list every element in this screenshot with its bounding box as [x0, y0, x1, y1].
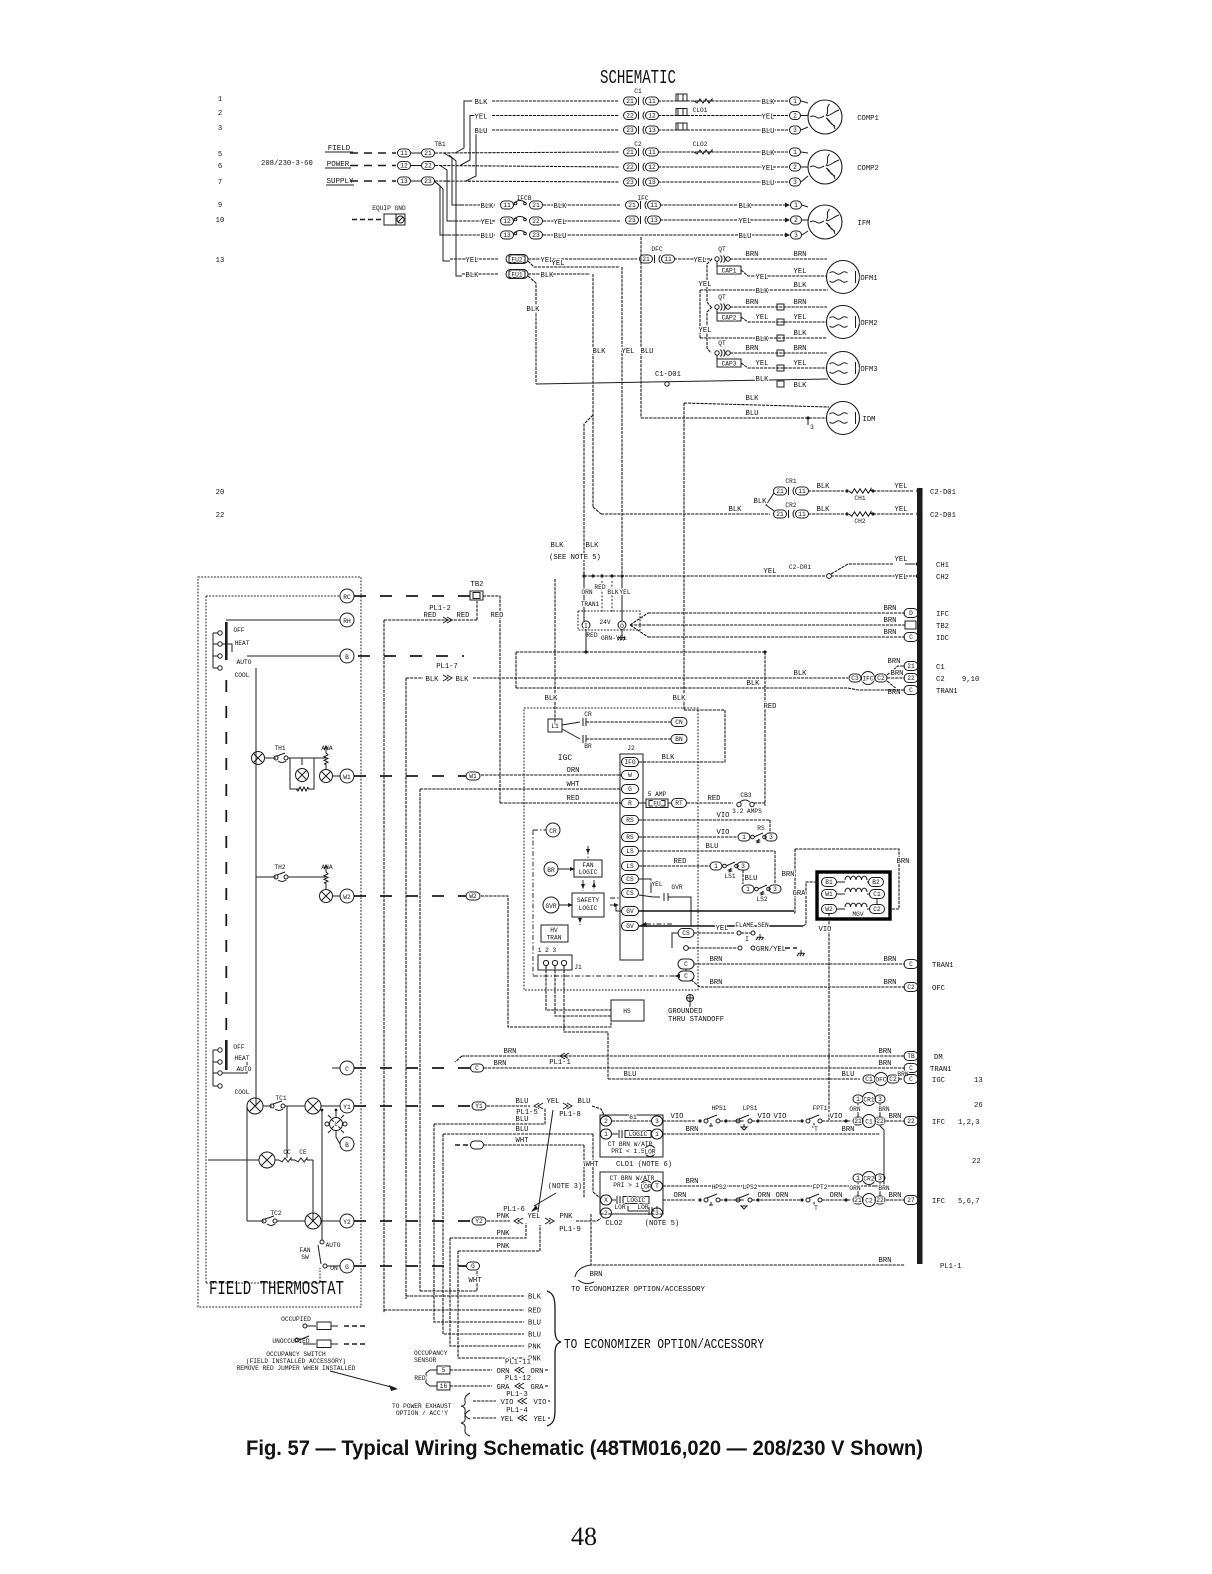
arrow hv: [579, 917, 581, 925]
svg-text:HPS2: HPS2: [712, 1184, 727, 1191]
svg-text:BLK: BLK: [466, 272, 480, 280]
wire IDM BLK: [684, 403, 829, 407]
thermostat inner rail: [205, 596, 207, 1283]
wire CAP2 YEL: [741, 317, 827, 322]
svg-text:SW: SW: [301, 1254, 309, 1261]
svg-text:WHT: WHT: [469, 1277, 483, 1285]
svg-text:BRN: BRN: [590, 1271, 603, 1279]
svg-text:C2-D01: C2-D01: [930, 512, 956, 520]
svg-text:FLAME SEN: FLAME SEN: [735, 922, 769, 929]
svg-text:2: 2: [793, 113, 797, 120]
connector W1: [354, 775, 466, 777]
CLO2 pin X: [601, 1195, 612, 1205]
svg-text:OFC: OFC: [875, 1077, 886, 1084]
grounded standoff: [687, 995, 694, 1002]
J2 pin RS: [622, 816, 639, 825]
wire BLU riser to CLO2: [592, 1134, 594, 1192]
wire row7 to motor: [658, 181, 788, 183]
svg-text:THRU STANDOFF: THRU STANDOFF: [668, 1016, 724, 1024]
wire to Y2: [321, 1220, 340, 1222]
svg-text:RED: RED: [586, 632, 597, 639]
CLO1 pin 2: [601, 1116, 612, 1126]
svg-text:LOR: LOR: [644, 1149, 655, 1156]
svg-text:13: 13: [216, 257, 225, 265]
CLO2 heater: [694, 150, 712, 154]
svg-text:C1: C1: [634, 88, 642, 95]
svg-text:11: 11: [648, 98, 656, 105]
wire CE riser: [312, 1160, 314, 1221]
wire YEL branch: [528, 261, 620, 267]
svg-text:9: 9: [218, 202, 222, 210]
heat lamp 1: [252, 752, 265, 765]
svg-text:C1-D01: C1-D01: [655, 371, 681, 379]
svg-text:PNK: PNK: [497, 1243, 511, 1251]
wire CR1 BLK: [808, 490, 845, 492]
svg-text:21: 21: [424, 150, 432, 157]
svg-text:3: 3: [878, 1175, 882, 1182]
svg-text:BRN: BRN: [891, 670, 904, 678]
svg-text:W2: W2: [343, 894, 351, 901]
indoor fan motor IFM: [808, 205, 842, 239]
svg-text:FU: FU: [653, 801, 661, 808]
svg-text:BLK: BLK: [456, 676, 470, 684]
svg-text:BRN: BRN: [504, 1048, 517, 1056]
wire RED 24v feed: [516, 651, 765, 653]
svg-text:PNK: PNK: [497, 1230, 511, 1238]
wire cluster to C1 row: [887, 666, 905, 675]
bus oval TRAN1: [904, 686, 918, 695]
svg-text:27: 27: [907, 1197, 915, 1204]
quick connect QT2: [715, 305, 719, 309]
svg-text:QT: QT: [718, 294, 726, 301]
svg-text:BN: BN: [675, 736, 683, 743]
svg-text:EQUIP GND: EQUIP GND: [372, 205, 406, 212]
wire YEL drop QT1-QT2: [707, 259, 712, 307]
svg-text:YEL: YEL: [466, 257, 479, 265]
CLO1 sensor box: [676, 109, 687, 116]
svg-text:11: 11: [664, 256, 672, 263]
economizer brace: [547, 1291, 561, 1426]
svg-text:C2: C2: [634, 141, 642, 148]
wire TH1 row: [265, 757, 276, 759]
wire W ORN dashed: [481, 774, 621, 776]
wire GRA: [803, 882, 817, 926]
arrow fan logic: [587, 846, 589, 858]
wire riser to row13: [437, 183, 450, 261]
svg-text:YEL: YEL: [762, 114, 775, 122]
equip gnd block: [384, 214, 396, 225]
svg-text:J1: J1: [574, 964, 582, 971]
svg-text:CR: CR: [549, 828, 557, 835]
brace vio: [461, 1393, 470, 1436]
cool lamp TC2: [305, 1213, 321, 1229]
wire OFM1 BLK riser: [699, 290, 701, 338]
svg-text:BR: BR: [584, 743, 592, 750]
wire J1-1: [546, 966, 611, 1010]
fan motor OFM1: [827, 261, 860, 294]
svg-text:OCCUPANCY SWITCH: OCCUPANCY SWITCH: [266, 1351, 326, 1358]
TB1 terminal 22: [422, 162, 435, 170]
svg-text:BRN: BRN: [746, 299, 759, 307]
svg-text:D: D: [909, 610, 913, 617]
cool stage lamp TC1b: [305, 1098, 321, 1114]
wire DFC to QT1: [674, 258, 712, 260]
contactor lockout CLO2 box: [600, 1172, 663, 1214]
spark box HS: [611, 1000, 644, 1021]
svg-text:CS: CS: [626, 876, 634, 883]
svg-text:T: T: [814, 1126, 818, 1133]
wire IFCB to IFC BLK: [543, 204, 620, 206]
wire phase3 row7: [435, 181, 619, 182]
svg-text:COMP1: COMP1: [857, 115, 879, 123]
svg-text:RS: RS: [626, 834, 634, 841]
capacitor CAP3: [716, 355, 718, 359]
svg-text:12: 12: [648, 164, 656, 171]
svg-text:BLU: BLU: [745, 875, 758, 883]
svg-text:BLK: BLK: [747, 680, 761, 688]
limit switch LS1: [710, 862, 722, 870]
svg-text:(FIELD INSTALLED ACCESSORY): (FIELD INSTALLED ACCESSORY): [246, 1358, 346, 1365]
svg-text:DFC: DFC: [651, 246, 662, 253]
svg-text:48: 48: [571, 1522, 597, 1551]
svg-text:5 AMP: 5 AMP: [648, 791, 667, 798]
junction: [724, 1119, 727, 1122]
svg-text:BLK: BLK: [794, 382, 808, 390]
wire Y1 BLU row: [472, 1102, 486, 1110]
svg-text:3: 3: [794, 232, 798, 239]
wire BRN CR2: [879, 1183, 881, 1196]
wire WHT to G connector: [420, 1271, 477, 1291]
svg-text:RED: RED: [424, 612, 437, 620]
svg-text:13: 13: [400, 178, 408, 185]
svg-text:YEL: YEL: [756, 314, 769, 322]
svg-text:CAP1: CAP1: [722, 268, 737, 275]
svg-text:CN: CN: [675, 719, 683, 726]
svg-text:1: 1: [856, 1096, 860, 1103]
svg-text:BLK: BLK: [528, 1294, 542, 1302]
svg-text:YEL: YEL: [501, 1416, 514, 1424]
terminal Y2: [340, 1214, 354, 1228]
relay contact CR1: [774, 487, 787, 495]
svg-text:PRI < 1.5: PRI < 1.5: [611, 1148, 645, 1155]
svg-text:BLK: BLK: [729, 506, 743, 514]
wire BRN CLO2: [663, 1185, 875, 1187]
wire YEL row: [473, 1417, 496, 1419]
wire row11 to IFM: [620, 234, 785, 236]
wire R RED dashed: [500, 802, 621, 804]
svg-text:PL1-3: PL1-3: [506, 1391, 528, 1399]
svg-text:PL1-11: PL1-11: [505, 1359, 531, 1367]
svg-text:YEL: YEL: [895, 506, 908, 514]
wire BRN DM row: [455, 1056, 462, 1062]
svg-text:C1: C1: [865, 1076, 873, 1083]
svg-text:2: 2: [793, 164, 797, 171]
svg-text:W2: W2: [469, 893, 477, 900]
wire thermostat left vertical: [255, 668, 257, 1106]
svg-text:13: 13: [650, 217, 658, 224]
bus oval OFC: [904, 983, 918, 992]
svg-text:L1: L1: [551, 723, 559, 730]
contactor lockout CLO1 box: [600, 1115, 663, 1157]
contactor C1 contact 21-11: [624, 97, 637, 105]
anticipator CC CE: [259, 1152, 275, 1168]
svg-text:21: 21: [854, 1118, 862, 1125]
wire ORN CR2: [857, 1183, 859, 1196]
svg-text:RED: RED: [414, 1375, 425, 1382]
svg-text:ORN: ORN: [776, 1192, 789, 1200]
svg-text:BLK: BLK: [481, 203, 495, 211]
svg-text:OFM3: OFM3: [860, 366, 877, 374]
svg-text:CLO2: CLO2: [693, 141, 708, 148]
mode switch 1 bar: [225, 622, 228, 660]
IDM junction: [806, 416, 809, 419]
svg-text:C1: C1: [865, 1119, 873, 1126]
CLO1 pin 1b: [652, 1129, 663, 1139]
svg-text:BRN: BRN: [884, 605, 897, 613]
underline FIELD: [325, 151, 353, 153]
svg-text:TO ECONOMIZER OPTION/ACCESSORY: TO ECONOMIZER OPTION/ACCESSORY: [571, 1286, 706, 1294]
svg-text:BLU: BLU: [516, 1126, 529, 1134]
svg-text:1: 1: [604, 1131, 608, 1138]
wire CC riser: [286, 1106, 288, 1158]
svg-text:23: 23: [626, 127, 634, 134]
terminal C: [340, 1061, 354, 1075]
svg-text:RED: RED: [567, 795, 580, 803]
svg-text:21: 21: [907, 663, 915, 670]
svg-text:AUTO: AUTO: [326, 1242, 341, 1249]
IFM plug arrow: [785, 203, 790, 208]
svg-text:LOGIC: LOGIC: [579, 905, 598, 912]
wire phase2 row6: [435, 166, 619, 168]
svg-text:LS2: LS2: [756, 896, 767, 903]
svg-text:BRN: BRN: [889, 1113, 902, 1121]
contactor C1 coil cluster: [853, 1117, 863, 1125]
sensor terminal 5: [437, 1366, 450, 1374]
svg-text:GVR: GVR: [671, 884, 682, 891]
svg-text:LS1: LS1: [724, 873, 735, 880]
terminal TB2 R: [470, 591, 483, 600]
wire IDM BLK vertical: [683, 403, 685, 710]
svg-text:BLK: BLK: [527, 306, 541, 314]
compressor motor COMP2: [808, 150, 842, 184]
svg-text:G: G: [345, 1264, 349, 1271]
svg-text:BRN: BRN: [879, 1257, 892, 1265]
svg-text:LS: LS: [626, 863, 634, 870]
svg-text:YEL: YEL: [475, 114, 488, 122]
wire RH row: [226, 619, 340, 621]
wire L1 to CN: [562, 722, 580, 725]
junction: [871, 512, 874, 515]
svg-text:C: C: [345, 1066, 349, 1073]
svg-text:C: C: [909, 687, 913, 694]
fuse FU1: [506, 270, 528, 279]
wire ORN CR1: [857, 1104, 859, 1117]
svg-text:3: 3: [655, 1210, 659, 1217]
svg-text:SENSOR: SENSOR: [414, 1357, 437, 1364]
svg-text:26: 26: [974, 1102, 983, 1110]
wire PNK row3: [458, 1225, 540, 1251]
wire LS1 BLU: [639, 850, 775, 852]
wire VIO row: [473, 1400, 496, 1402]
svg-text:TRAN1: TRAN1: [930, 1066, 952, 1074]
svg-text:3: 3: [810, 424, 814, 431]
terminal RH: [340, 613, 354, 627]
svg-text:YEL: YEL: [619, 589, 630, 596]
sensor terminal 16: [437, 1382, 450, 1390]
svg-text:3: 3: [769, 834, 773, 841]
svg-text:22: 22: [424, 163, 432, 170]
svg-text:TB2: TB2: [471, 581, 484, 589]
svg-text:22: 22: [626, 113, 634, 120]
MGV W1-C1 winding: [822, 890, 837, 899]
wire BRN to bus IFC2: [886, 1199, 905, 1201]
svg-text:C2: C2: [889, 1076, 897, 1083]
svg-text:HEAT: HEAT: [235, 640, 250, 647]
svg-text:YEL: YEL: [739, 218, 752, 226]
wire CR2 feed: [601, 513, 770, 515]
svg-text:2: 2: [794, 217, 798, 224]
bus oval TRAN1 2: [904, 960, 918, 969]
svg-text:22: 22: [972, 1158, 981, 1166]
svg-text:REMOVE RED JUMPER WHEN INSTALL: REMOVE RED JUMPER WHEN INSTALLED: [237, 1365, 356, 1372]
mode switch 2 contacts: [218, 1048, 222, 1052]
wire RS1 VIO: [639, 819, 770, 821]
svg-text:PNK: PNK: [497, 1213, 511, 1221]
CLO1 LOR: [645, 1146, 656, 1157]
wire RED to CB3: [687, 802, 733, 804]
svg-text:GRN/YEL: GRN/YEL: [756, 946, 786, 954]
J2 connector body: [620, 754, 643, 960]
wire TC2 row: [247, 1220, 264, 1222]
svg-text:21: 21: [628, 202, 636, 209]
svg-text:BLK: BLK: [475, 99, 489, 107]
svg-text:TH2: TH2: [274, 864, 285, 871]
wire L1 to BN: [562, 729, 580, 739]
terminal RC: [340, 589, 354, 603]
svg-text:CLO2: CLO2: [605, 1220, 622, 1228]
wire riser to row10: [440, 166, 455, 222]
terminal W2: [340, 889, 354, 903]
wire CAP3 YEL: [741, 363, 827, 368]
wire RC row: [206, 595, 340, 597]
svg-text:1: 1: [742, 834, 746, 841]
svg-text:BLK: BLK: [662, 754, 676, 762]
wire PNK row2: [450, 1223, 526, 1238]
svg-text:11: 11: [798, 511, 806, 518]
svg-text:LPS2: LPS2: [743, 1184, 758, 1191]
svg-text:J2: J2: [627, 745, 635, 752]
wire PL1-2 RED: [384, 619, 477, 621]
svg-text:LS: LS: [626, 848, 634, 855]
svg-text:YEL: YEL: [622, 348, 635, 356]
terminal C2 low: [678, 971, 694, 981]
svg-text:RS: RS: [757, 825, 765, 832]
wire B row: [247, 655, 340, 657]
svg-text:VIO: VIO: [534, 1399, 547, 1407]
svg-text:FAN: FAN: [299, 1247, 310, 1254]
svg-text:PL1-4: PL1-4: [506, 1407, 528, 1415]
arrow into GV2: [639, 922, 647, 927]
svg-text:GRA: GRA: [793, 890, 807, 898]
svg-text:BLK: BLK: [607, 589, 618, 596]
wire LS1 to LS2 BLU: [742, 870, 744, 884]
J2 pin GV: [622, 907, 639, 916]
svg-text:21: 21: [776, 511, 784, 518]
svg-text:PL1-8: PL1-8: [559, 1111, 581, 1119]
svg-text:3: 3: [218, 125, 222, 133]
contactor C2 contact 22-12: [624, 163, 637, 171]
svg-text:PL1-7: PL1-7: [436, 663, 458, 671]
svg-text:BLK: BLK: [739, 203, 753, 211]
svg-text:YEL: YEL: [534, 1416, 547, 1424]
svg-text:I: I: [745, 936, 749, 943]
svg-text:3: 3: [655, 1118, 659, 1125]
svg-text:1: 1: [793, 149, 797, 156]
wire to CH1: [831, 564, 893, 574]
svg-text:Y2: Y2: [475, 1218, 483, 1225]
svg-text:BRN: BRN: [710, 979, 723, 987]
svg-text:13: 13: [974, 1077, 983, 1085]
svg-text:BRN: BRN: [494, 1060, 507, 1068]
terminal B2: [340, 1137, 354, 1151]
TB1 terminal 12: [398, 162, 411, 170]
terminal CS flame: [678, 929, 694, 938]
svg-text:ORN: ORN: [674, 1192, 687, 1200]
svg-text:RC: RC: [343, 594, 351, 601]
svg-text:22: 22: [907, 1118, 915, 1125]
TB1 terminal 23: [422, 177, 435, 185]
relay contact CR2: [774, 510, 787, 518]
wire VIO chain: [663, 1120, 695, 1122]
svg-text:FU1: FU1: [511, 271, 522, 278]
wire BRN to IDC: [648, 636, 905, 638]
svg-text:22: 22: [876, 1197, 884, 1204]
IFCB breaker pole YEL: [501, 217, 514, 225]
svg-text:11: 11: [503, 202, 511, 209]
svg-text:CR1: CR1: [863, 1097, 874, 1104]
wire riser to row3: [466, 130, 484, 181]
wire PL1-7 BLK: [406, 677, 423, 679]
svg-text:22: 22: [216, 512, 225, 520]
svg-text:CR2: CR2: [785, 502, 796, 509]
svg-text:IFC: IFC: [862, 676, 873, 683]
wire BLK IFO riser: [684, 710, 725, 762]
wire LS2 RED: [639, 865, 710, 867]
wire CAP1 YEL: [741, 270, 827, 276]
wire drops to TRAN1: [601, 581, 603, 612]
MGV B1-B2 winding: [822, 878, 837, 887]
CLO2 logic: [612, 1199, 616, 1201]
svg-text:TRAN: TRAN: [547, 935, 562, 942]
svg-text:BRN: BRN: [884, 629, 897, 637]
bus oval C2: [904, 674, 918, 683]
svg-text:TB: TB: [907, 1053, 915, 1060]
svg-text:T: T: [655, 1183, 659, 1190]
svg-text:YEL: YEL: [528, 1213, 541, 1221]
wire row6 to motor: [658, 166, 788, 168]
svg-text:BLU: BLU: [554, 233, 567, 241]
wire TC1 row: [263, 1105, 272, 1107]
svg-text:BRN: BRN: [897, 858, 910, 866]
wire RS riser: [769, 820, 771, 837]
svg-text:G: G: [628, 786, 632, 793]
svg-text:PL1-1: PL1-1: [940, 1263, 962, 1271]
igniter L1 box: [548, 719, 562, 732]
svg-text:WHT: WHT: [516, 1137, 530, 1145]
wire field supply dashed: [350, 180, 396, 182]
wire row9 to IFM: [660, 204, 785, 206]
J2 pin IFO: [622, 758, 639, 767]
